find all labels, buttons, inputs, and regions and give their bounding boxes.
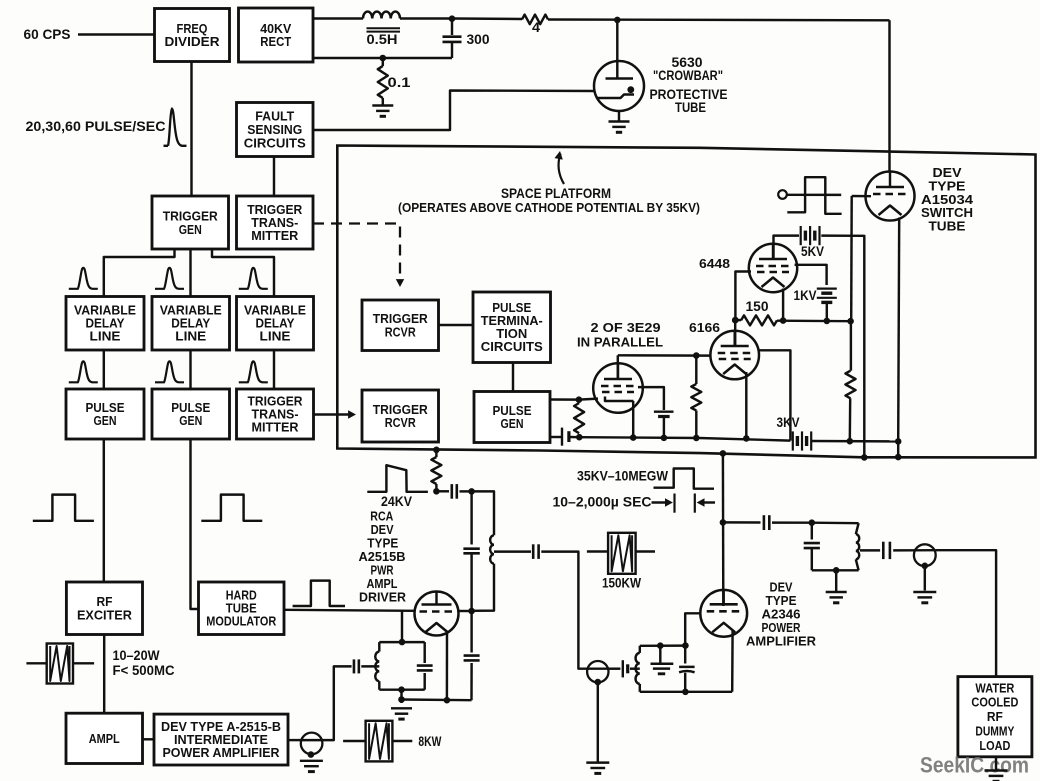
node 0.1 resistor junction (380, 55, 387, 62)
inductor output tank coil (856, 523, 859, 534)
capacitor 300 (443, 19, 462, 59)
dimension arrow left (652, 501, 669, 503)
arrow to platform edge (558, 154, 564, 185)
wire pulse gen bottom to coupling cap (550, 436, 562, 438)
wire switch grid lead (852, 195, 871, 198)
space platform enclosure (337, 146, 1035, 458)
svg-text:F< 500MC: F< 500MC (113, 663, 175, 678)
wire RF exciter to AMPL (103, 635, 105, 714)
battery 5KV (800, 226, 802, 245)
wire crowbar anode pin (616, 20, 618, 79)
capacitor driver output coupling (532, 544, 535, 559)
svg-text:VARIABLE: VARIABLE (160, 304, 222, 318)
svg-text:TUBE: TUBE (675, 100, 706, 115)
wire 6448 plate to 5KV battery (774, 236, 800, 259)
wire input cap to tank coil (361, 665, 379, 667)
waveform pulse at modulator line (201, 495, 262, 521)
wire 6448 cathode lead (782, 289, 784, 321)
PA tank bypass cap (659, 646, 661, 663)
wire switch cathode down (898, 218, 899, 442)
tube V1 5630 crowbar envelope (594, 61, 644, 111)
waveform spike into delay line 2 (155, 268, 184, 289)
node platform output on bottom edge (720, 450, 727, 457)
svg-text:"CROWBAR": "CROWBAR" (653, 68, 723, 83)
node 6448 cathode at bias rail (780, 317, 787, 324)
svg-text:60 CPS: 60 CPS (24, 26, 71, 42)
node filter cap junction (449, 15, 456, 22)
block DEV TYPE A-2515-B INTERMEDIATE POWER AMPLIFIER (154, 714, 288, 765)
wire coil bottom to grid node (472, 564, 494, 611)
svg-text:20,30,60 PULSE/SEC: 20,30,60 PULSE/SEC (26, 119, 166, 134)
wire pulse gen 2 down to modulator (191, 439, 199, 609)
wire 40KV RECT bottom output (313, 57, 452, 59)
wire 6166 grid1 to 3KV battery (759, 350, 790, 440)
waveform pulse at RF exciter line (33, 495, 94, 521)
node PA grid tank top (682, 642, 689, 649)
node grid leak on rail (693, 435, 700, 442)
svg-text:(OPERATES ABOVE CATHODE POTENT: (OPERATES ABOVE CATHODE POTENTIAL BY 35K… (398, 200, 700, 215)
svg-text:WATER: WATER (975, 681, 1014, 695)
resistor 6166 grid leak (691, 384, 701, 411)
waveform switch drive pulse (787, 177, 841, 214)
wire 5KV battery to platform cathode line (821, 236, 864, 458)
resistor 3E29 cathode bias (574, 403, 584, 433)
node pulse gen output (576, 396, 583, 403)
wire tank top to coil branch (472, 491, 494, 535)
waveform 20-30-60 pulse spike (164, 109, 187, 146)
PA input tank top line (640, 644, 686, 647)
wire pulse gen 1 down to RF exciter (103, 439, 105, 582)
block VARIABLE DELAY LINE 2 (152, 297, 230, 351)
wire output cap to down corner (541, 552, 587, 669)
wire 40KV RECT top output (313, 17, 363, 19)
svg-text:LINE: LINE (90, 330, 121, 344)
svg-text:0.5H: 0.5H (367, 32, 398, 47)
capacitor driver input tank (423, 642, 425, 663)
wire driver plate node to coupling cap (436, 490, 449, 492)
waveform 24KV pulse (367, 465, 428, 492)
node switch grid resistor at rail A (847, 438, 854, 445)
wire output tap (860, 549, 880, 551)
block TRIGGER RCVR 1 (362, 300, 439, 351)
node 5KV return on platform bottom (861, 454, 868, 461)
waveform spike into pulse gen 1 (69, 361, 98, 382)
block TRIGGER RCVR 2 (362, 390, 439, 442)
wire 60CPS to FREQ DIVIDER (78, 33, 155, 35)
svg-text:CIRCUITS: CIRCUITS (481, 340, 543, 354)
svg-text:MITTER: MITTER (251, 228, 299, 243)
ground load isolator (924, 566, 926, 591)
output tank top line (812, 521, 859, 524)
crowbar cathode (597, 95, 634, 99)
ground output tank (835, 570, 837, 591)
svg-text:VARIABLE: VARIABLE (244, 304, 306, 318)
svg-text:TUBE: TUBE (929, 219, 966, 234)
block FAULT SENSING CIRCUITS (237, 103, 314, 157)
svg-text:DELAY: DELAY (86, 317, 126, 331)
svg-text:DELAY: DELAY (171, 317, 211, 331)
wire TRIGGER GEN to delay line 2 (189, 249, 191, 297)
capacitor output tank (811, 523, 813, 540)
driver input tank bottom line (379, 688, 424, 690)
node load isolator ground tap (922, 563, 929, 570)
wire drive input mid line (787, 194, 841, 197)
block TRIGGER GEN (152, 196, 229, 249)
wire delay line 1 to pulse gen 1 (103, 350, 105, 389)
ground dummy load (995, 757, 997, 770)
wire cap to tank node (460, 490, 472, 492)
block WATER COOLED RF DUMMY LOAD (958, 677, 1032, 757)
svg-text:10–2,000µ SEC: 10–2,000µ SEC (553, 495, 652, 510)
node 3E29 cathode on rail (630, 434, 637, 441)
capacitor load coupling (882, 542, 885, 559)
waveform spike into delay line 1 (69, 268, 98, 289)
svg-text:10–20W: 10–20W (113, 648, 160, 663)
wire 150KW left stub (587, 550, 608, 552)
capacitor 3E29 grid bias (654, 411, 674, 413)
wire A bottom rail (579, 437, 790, 440)
wire cap to output tank (772, 521, 812, 524)
wire trigger rcvr 1 to pulse termination (439, 324, 474, 326)
wire attenuator right stub (73, 662, 94, 664)
block TRIGGER TRANSMITTER lower (237, 389, 314, 439)
svg-text:SeekIC.com: SeekIC.com (920, 753, 1029, 778)
block RF EXCITER (66, 582, 142, 635)
wire 6448 grid1 to 1KV (795, 265, 827, 285)
wire A rail right segment (811, 440, 898, 443)
svg-text:24KV: 24KV (381, 494, 412, 509)
node crowbar anode at HV rail (614, 17, 621, 24)
tube 6166 (710, 330, 759, 379)
inductor driver output coil (490, 535, 494, 563)
svg-text:LINE: LINE (260, 330, 291, 344)
node PA tank bypass tap (657, 642, 664, 649)
node 6166 cathode on rail (743, 435, 750, 442)
waveform spike into delay line 3 (239, 268, 268, 289)
wire 6166 plate pin (734, 320, 736, 346)
block HARD TUBE MODULATOR (199, 582, 285, 635)
svg-text:150KW: 150KW (602, 576, 641, 591)
wire 1KV to bias rail (826, 302, 828, 321)
svg-text:2 OF 3E29: 2 OF 3E29 (591, 320, 661, 335)
wire HV rail drop to switch tube (888, 20, 890, 171)
wire AMPL to intermediate PA (143, 738, 155, 740)
wire tank bottom to ground bus (400, 690, 402, 700)
wire pulse termination to pulse gen (512, 363, 514, 392)
svg-text:1KV: 1KV (794, 288, 817, 303)
node grid cap on rail (661, 435, 668, 442)
node driver tank top (468, 488, 475, 495)
wire isolator to dummy load (936, 550, 997, 676)
svg-text:0.1: 0.1 (388, 75, 412, 90)
node ground bus left (398, 696, 405, 703)
wire cap to load isolator (893, 549, 914, 552)
svg-text:MODULATOR: MODULATOR (206, 615, 276, 629)
wire 8KW left stub (343, 740, 366, 742)
tube A2346 power amplifier (700, 589, 747, 636)
wire attenuator left stub (26, 662, 46, 664)
battery 3KV (792, 431, 794, 450)
node driver cathode on bus (444, 697, 451, 704)
crowbar anode bar (606, 77, 634, 80)
wire driver grid tank drop (401, 611, 403, 643)
resistor 0.1 (378, 58, 388, 105)
svg-text:MITTER: MITTER (252, 420, 300, 435)
wire TRIGGER GEN to delay line 3 (212, 249, 274, 297)
node switch cathode at rail A (895, 438, 902, 445)
block FREQ DIVIDER (155, 9, 230, 62)
svg-text:AMPL: AMPL (89, 731, 120, 746)
driver input tank top line (379, 641, 424, 643)
resistor driver plate feed (435, 450, 437, 457)
svg-text:PULSE: PULSE (492, 301, 531, 315)
output tank bottom line (812, 569, 859, 571)
node PA tank bottom (682, 689, 689, 696)
svg-text:DELAY: DELAY (256, 317, 296, 331)
tube RCA A2515B driver (415, 591, 459, 636)
svg-text:SPACE PLATFORM: SPACE PLATFORM (501, 186, 611, 201)
svg-text:5KV: 5KV (801, 244, 824, 259)
isolator circle load output (914, 544, 936, 566)
svg-text:DUMMY: DUMMY (975, 725, 1014, 739)
svg-text:RCVR: RCVR (385, 415, 417, 430)
capacitor PA grid branch (684, 646, 686, 664)
waveform spike into trigger transmitter 2 (239, 361, 268, 382)
node bias rail right end (847, 318, 854, 325)
svg-text:RECT: RECT (260, 34, 291, 49)
svg-text:TION: TION (496, 327, 527, 341)
svg-text:RF: RF (987, 710, 1003, 724)
wire delay line 3 to trigger transmitter 2 (273, 350, 275, 389)
wire 3E29 cathode down lead (632, 401, 634, 438)
wire node to resistor 4 (452, 17, 522, 20)
svg-text:INTERMEDIATE: INTERMEDIATE (174, 733, 268, 747)
wire PA cathode lead (731, 631, 734, 692)
inductor PA input coil (639, 646, 641, 653)
isolator circle PA input (587, 661, 608, 682)
wire A bottom rail left (569, 436, 579, 439)
wire node to 3E29 cathode (579, 399, 598, 400)
block VARIABLE DELAY LINE 3 (237, 297, 314, 351)
svg-text:GEN: GEN (94, 413, 117, 428)
svg-text:8KW: 8KW (418, 734, 441, 749)
svg-text:6448: 6448 (699, 256, 730, 271)
dimension tick left (673, 494, 675, 513)
svg-text:POWER AMPLIFIER: POWER AMPLIFIER (163, 746, 280, 760)
wire isolator to driver input riser (322, 666, 351, 740)
svg-text:IN PARALLEL: IN PARALLEL (577, 335, 663, 350)
bias rail 150 line (735, 319, 741, 321)
svg-text:VARIABLE: VARIABLE (74, 304, 136, 318)
node PA isolator ground tap (595, 679, 602, 686)
block PULSE GEN 2 (152, 389, 230, 439)
inductor driver input tank (378, 642, 380, 652)
capacitor driver right branch (470, 611, 472, 653)
wire 3E29 plate pin (617, 355, 619, 379)
wire grid cap to rail (663, 417, 665, 438)
wire PA isolator ground stem (597, 682, 599, 761)
tube 2 OF 3E29 (593, 363, 643, 413)
svg-text:DIVIDER: DIVIDER (165, 34, 221, 49)
svg-text:DRIVER: DRIVER (359, 590, 407, 605)
waveform modulator output pulse (293, 581, 345, 606)
ground under 0.1 resistor (372, 104, 393, 106)
battery 1KV (817, 288, 837, 290)
crowbar starter dot (627, 86, 634, 93)
svg-text:TUBE: TUBE (226, 602, 257, 616)
wire choke to node (400, 17, 452, 19)
node PA plate feed (720, 519, 727, 526)
capacitor PA input coupling (622, 660, 624, 677)
load 150KW (608, 533, 636, 574)
wire 150KW right stub (636, 550, 655, 552)
svg-text:RCVR: RCVR (385, 325, 417, 340)
wire coil tap output (494, 550, 531, 552)
block AMPL (66, 713, 143, 763)
wire crowbar cathode to ground (618, 111, 620, 121)
node driver tank bottom (398, 686, 405, 693)
svg-text:AMPLIFIER: AMPLIFIER (746, 634, 817, 649)
node bias rail left (732, 317, 739, 324)
inductor 0.5H (363, 12, 400, 32)
node driver plate junction (433, 488, 440, 495)
waveform spike into pulse gen 2 (155, 361, 184, 382)
svg-text:GEN: GEN (501, 416, 524, 431)
wire driver cathode lead (446, 631, 449, 700)
svg-text:LOAD: LOAD (979, 739, 1010, 753)
svg-text:3KV: 3KV (777, 415, 800, 430)
block TRIGGER TRANSMITTER upper (237, 196, 314, 249)
waveform 35KV pulse (654, 469, 715, 489)
svg-text:LINE: LINE (175, 330, 206, 344)
wire 3E29 plate to 6166 grid (618, 354, 711, 357)
block PULSE GEN 1 (66, 389, 144, 439)
wire 6448 grid2 to bias rail (735, 272, 751, 321)
capacitor driver plate coupling (450, 484, 453, 499)
wire PA grid lead (685, 613, 700, 645)
ground crowbar (609, 120, 630, 122)
ground bus driver (402, 698, 472, 701)
isolator circle intermediate output (301, 733, 323, 755)
svg-text:GEN: GEN (179, 222, 202, 237)
capacitor driver input coupling (353, 659, 356, 673)
svg-text:TERMINA-: TERMINA- (481, 314, 543, 328)
wire intermediate PA output (288, 739, 301, 741)
3E29 cathode bar (605, 397, 634, 402)
node plate line junction (693, 352, 700, 359)
dashed trigger link to platform (313, 224, 400, 282)
block PULSE TERMINATION CIRCUITS (473, 292, 551, 363)
dimension arrow right (697, 498, 705, 506)
wire HV rail to switch tube feed corner (548, 18, 890, 21)
svg-text:COOLED: COOLED (971, 696, 1018, 710)
wire 8KW right stub (392, 740, 412, 742)
svg-text:150: 150 (746, 299, 769, 314)
wire trigger transmitter 2 arrow into platform (314, 413, 350, 415)
wire pulse gen output (550, 398, 579, 401)
node bias resistor bottom (576, 434, 583, 441)
svg-text:DEV TYPE A-2515-B: DEV TYPE A-2515-B (161, 720, 281, 734)
attenuator low power (47, 644, 73, 684)
wire delay line 2 to pulse gen 2 (189, 350, 191, 389)
svg-text:HARD: HARD (226, 589, 257, 603)
node driver grid right (468, 608, 475, 615)
switch tube grid dashes row2 (871, 195, 909, 197)
capacitor driver feed branch (470, 491, 472, 544)
PA input tank bottom line (640, 691, 732, 693)
wire 6166 cathode lead (745, 372, 747, 438)
ground PA isolator (586, 761, 609, 763)
node 6166 plate at rail (732, 317, 739, 324)
attenuator 8KW (366, 721, 393, 762)
wire driver grid right side (458, 610, 471, 612)
svg-text:4: 4 (532, 20, 541, 35)
wire switch grid down with resistor (850, 196, 853, 321)
node output tank ground tap (833, 567, 840, 574)
node isolator ground tap (308, 751, 315, 758)
svg-text:CIRCUITS: CIRCUITS (244, 135, 306, 150)
svg-text:300: 300 (467, 32, 490, 47)
terminal drive input circle (778, 190, 787, 199)
svg-text:35KV–10MEGW: 35KV–10MEGW (577, 469, 668, 484)
wire platform output drop (722, 453, 725, 606)
wire 3E29 grid bias lead (638, 387, 664, 410)
svg-text:GEN: GEN (179, 413, 202, 428)
ground isolator intermediate (300, 760, 323, 762)
wire TRIGGER GEN to delay line 1 (104, 249, 175, 297)
block 40KV RECT (239, 8, 314, 62)
node 1KV at bias rail (824, 318, 831, 325)
dimension tick right (694, 494, 696, 513)
tube A15034 switch envelope (866, 171, 915, 221)
capacitor platform bottom-left coupling (561, 428, 563, 446)
vertical wire FREQ DIVIDER to TRIGGER GEN (190, 62, 192, 197)
wire modulator to driver grid (284, 610, 415, 611)
wire FAULT SENSING to crowbar grid (313, 91, 595, 131)
node driver input tank top (399, 639, 406, 646)
node switch cathode on platform bottom (895, 454, 902, 461)
block VARIABLE DELAY LINE 1 (66, 297, 144, 351)
svg-text:EXCITER: EXCITER (77, 608, 133, 623)
tube 6448 (749, 243, 797, 292)
node modulator feed on platform bottom (433, 447, 440, 454)
block PULSE GEN platform (474, 392, 550, 443)
node output tank top (809, 519, 816, 526)
wire FAULT to TRIGGER TRANSMITTER (273, 157, 275, 197)
resistor 4 (522, 15, 548, 25)
svg-text:6166: 6166 (689, 320, 720, 335)
capacitor PA output coupling (763, 515, 766, 530)
ground driver bus (400, 700, 402, 704)
wire output top line (723, 521, 761, 524)
